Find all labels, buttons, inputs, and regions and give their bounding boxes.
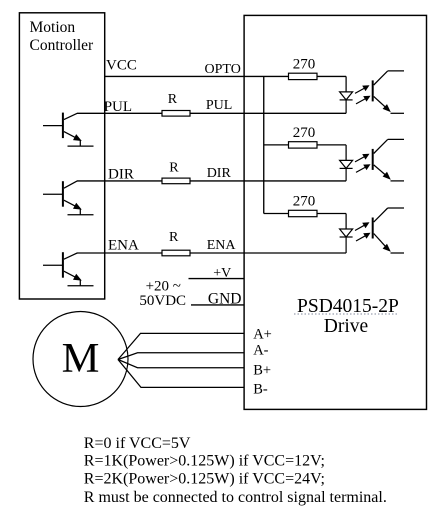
svg-text:B+: B+: [253, 363, 271, 379]
svg-text:R: R: [169, 160, 179, 175]
phototransistor U2: [373, 139, 404, 181]
svg-text:50VDC: 50VDC: [139, 293, 186, 309]
transistor Q2: [43, 181, 94, 215]
wire OPTO bus vertical: [263, 76, 265, 213]
wire ENA: [77, 252, 346, 254]
wire +V: [189, 278, 245, 280]
svg-text:R=1K(Power>0.125W) if VCC=12V;: R=1K(Power>0.125W) if VCC=12V;: [84, 452, 325, 469]
wire VCC/OPTO: [105, 75, 346, 77]
svg-text:A-: A-: [253, 343, 268, 359]
svg-text:M: M: [62, 335, 100, 382]
resistor 270 (U2): [289, 142, 318, 148]
transistor Q3: [43, 252, 94, 286]
svg-text:270: 270: [293, 57, 316, 73]
drive box (PSD4015-2P): [244, 15, 426, 409]
wire PUL: [77, 112, 346, 114]
svg-text:VCC: VCC: [106, 58, 137, 74]
svg-text:270: 270: [293, 125, 316, 141]
svg-text:R=0 if VCC=5V: R=0 if VCC=5V: [84, 435, 191, 452]
resistor R (DIR): [162, 178, 190, 184]
motion controller box: [19, 13, 104, 299]
svg-text:270: 270: [293, 194, 316, 210]
resistor R (ENA): [162, 250, 190, 256]
LED D2: [340, 160, 353, 181]
wire DIR: [77, 180, 346, 182]
svg-text:A+: A+: [253, 327, 272, 343]
phototransistor U3: [373, 208, 404, 253]
wire 270 feed U3: [264, 213, 346, 215]
resistor 270 (U3): [289, 210, 318, 216]
wire 270 feed U2: [264, 144, 346, 146]
svg-text:R: R: [169, 230, 179, 245]
svg-text:DIR: DIR: [108, 166, 134, 182]
svg-text:PUL: PUL: [104, 99, 132, 115]
resistor 270 (U1): [289, 73, 318, 79]
svg-text:GND: GND: [208, 291, 242, 308]
wire LED anode U1: [345, 76, 347, 92]
wire GND: [191, 304, 244, 306]
svg-text:Motion: Motion: [30, 19, 76, 36]
resistor R (PUL): [162, 111, 190, 117]
svg-text:R=2K(Power>0.125W) if VCC=24V;: R=2K(Power>0.125W) if VCC=24V;: [84, 471, 325, 488]
motor M circle: [33, 312, 128, 407]
svg-text:B-: B-: [253, 381, 268, 397]
svg-text:PUL: PUL: [206, 98, 232, 113]
light arrows U2: [355, 154, 371, 173]
svg-text:Drive: Drive: [324, 316, 368, 337]
svg-text:R: R: [168, 92, 178, 107]
svg-text:Controller: Controller: [30, 37, 95, 54]
light arrows U1: [355, 85, 371, 104]
transistor Q1: [43, 113, 94, 147]
wire LED anode U3: [345, 214, 347, 230]
phototransistor U1: [373, 71, 404, 113]
svg-text:DIR: DIR: [207, 166, 232, 181]
LED D1: [340, 92, 353, 113]
svg-text:R must be connected to control: R must be connected to control signal te…: [84, 489, 387, 506]
wire LED anode U2: [345, 145, 347, 161]
dotted underline: [294, 313, 398, 315]
svg-text:ENA: ENA: [207, 238, 237, 253]
motor wires A+/A-/B+/B-: [118, 333, 244, 387]
light arrows U3: [355, 222, 371, 241]
LED D3: [340, 229, 353, 253]
svg-text:OPTO: OPTO: [205, 62, 241, 77]
svg-text:+V: +V: [213, 266, 231, 281]
svg-text:ENA: ENA: [108, 238, 139, 254]
svg-text:+20 ~: +20 ~: [146, 278, 181, 294]
